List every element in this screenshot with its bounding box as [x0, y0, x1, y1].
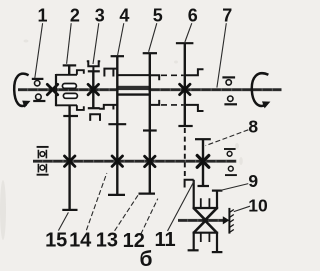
svg-text:7: 7: [222, 5, 232, 25]
svg-text:8: 8: [248, 116, 258, 136]
svg-text:б: б: [140, 248, 153, 271]
svg-text:5: 5: [153, 5, 163, 25]
svg-text:2: 2: [70, 5, 80, 25]
svg-text:10: 10: [248, 195, 268, 215]
svg-text:1: 1: [37, 5, 47, 25]
svg-text:11: 11: [155, 229, 176, 251]
svg-text:14: 14: [69, 230, 92, 252]
svg-text:4: 4: [119, 5, 129, 25]
svg-text:15: 15: [45, 230, 67, 252]
svg-text:13: 13: [96, 230, 118, 252]
svg-text:9: 9: [248, 171, 258, 191]
svg-text:3: 3: [95, 5, 105, 25]
svg-text:6: 6: [188, 5, 198, 25]
